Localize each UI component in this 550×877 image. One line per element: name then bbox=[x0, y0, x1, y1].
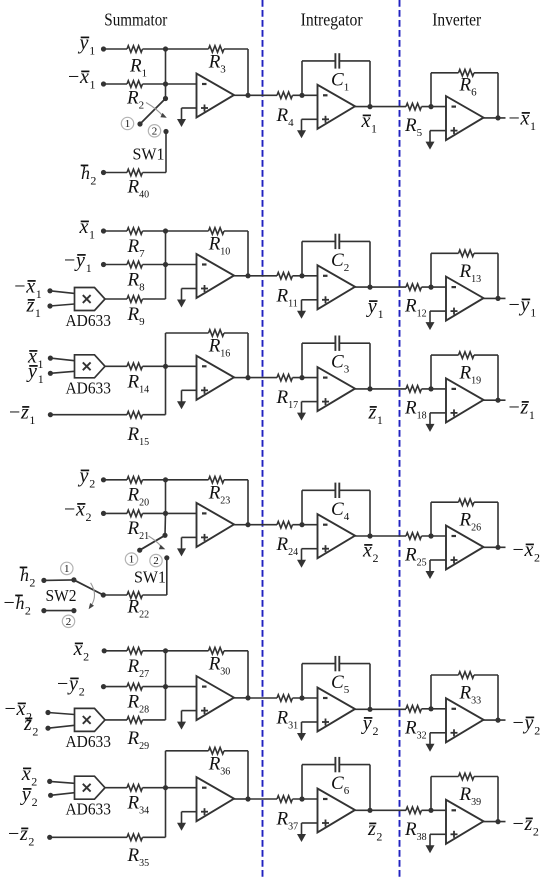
svg-text:1: 1 bbox=[36, 287, 42, 301]
switch SW2 pole bbox=[101, 592, 106, 597]
node label y2bar bbox=[78, 465, 96, 491]
wire bbox=[143, 787, 166, 789]
switch SW1b pole bbox=[162, 533, 167, 538]
wire bbox=[248, 697, 277, 699]
label R11 bbox=[276, 285, 298, 309]
node inverter 3 summing junction bbox=[428, 533, 433, 538]
wire bbox=[44, 579, 74, 582]
op-amp U2 bbox=[318, 85, 356, 129]
svg-text:−: − bbox=[8, 823, 19, 845]
op-amp U14 bbox=[318, 688, 356, 732]
node label x2 bbox=[362, 540, 379, 566]
svg-text:1: 1 bbox=[89, 228, 95, 242]
svg-text:2: 2 bbox=[83, 650, 89, 664]
svg-text:SW1: SW1 bbox=[133, 145, 165, 164]
label R17 bbox=[276, 387, 299, 411]
label R2 bbox=[126, 88, 144, 112]
wire bbox=[143, 365, 166, 367]
label R10 bbox=[208, 234, 231, 258]
resistor R9 bbox=[127, 296, 142, 303]
op-amp U11 bbox=[318, 514, 356, 558]
svg-text:z: z bbox=[26, 295, 35, 317]
node input -x1bar bbox=[101, 81, 106, 86]
wire bbox=[369, 61, 371, 107]
node label x2bar bbox=[73, 638, 90, 664]
wire bbox=[48, 713, 75, 715]
wire bbox=[484, 297, 506, 299]
svg-text:y: y bbox=[523, 712, 534, 734]
svg-text:y: y bbox=[78, 32, 89, 54]
resistor R16 bbox=[209, 330, 224, 337]
resistor R19 bbox=[459, 352, 474, 359]
svg-text:1: 1 bbox=[530, 119, 536, 133]
op-amp U18 bbox=[446, 800, 484, 844]
node input z2bar (mult) bbox=[45, 726, 50, 731]
wire bbox=[182, 288, 197, 290]
svg-text:−: − bbox=[509, 397, 520, 419]
node input -z2bar bbox=[47, 835, 52, 840]
svg-text:1: 1 bbox=[86, 261, 92, 275]
svg-text:SW1: SW1 bbox=[134, 568, 166, 587]
label SW1b bbox=[134, 568, 166, 587]
wire bbox=[247, 651, 249, 698]
svg-text:2: 2 bbox=[32, 725, 38, 739]
ground bbox=[177, 537, 186, 556]
svg-text:z: z bbox=[367, 818, 376, 840]
node summator 2 output bbox=[245, 375, 250, 380]
resistor R11 bbox=[277, 273, 292, 280]
svg-text:1: 1 bbox=[378, 307, 384, 321]
svg-text:Intregator: Intregator bbox=[301, 10, 363, 30]
node input -y2bar bbox=[101, 684, 106, 689]
node label y2bar (mult M4) bbox=[20, 784, 38, 810]
svg-text:x: x bbox=[73, 638, 83, 660]
svg-text:1: 1 bbox=[89, 44, 95, 58]
svg-text:−: − bbox=[9, 402, 20, 424]
ground bbox=[177, 812, 186, 831]
label R26 bbox=[459, 510, 482, 534]
wire bbox=[143, 172, 167, 174]
resistor R28 bbox=[127, 683, 142, 690]
svg-text:2: 2 bbox=[66, 616, 72, 628]
node label x1bar bbox=[79, 216, 96, 242]
wire bbox=[182, 107, 197, 109]
wire bbox=[165, 132, 167, 173]
wire bbox=[430, 412, 446, 414]
wire bbox=[293, 275, 318, 277]
svg-text:−: − bbox=[513, 539, 524, 561]
switch SW1 position 1 bbox=[121, 117, 133, 130]
node input -x1bar (mult) bbox=[47, 288, 52, 293]
svg-text:x: x bbox=[21, 763, 31, 785]
svg-text:2: 2 bbox=[32, 795, 38, 809]
label R15 bbox=[127, 424, 150, 448]
node input h2bar (SW2) bbox=[41, 578, 46, 583]
wire bbox=[293, 798, 318, 800]
wire bbox=[301, 241, 303, 275]
svg-text:z: z bbox=[520, 397, 529, 419]
wire bbox=[474, 674, 498, 676]
svg-text:−: − bbox=[513, 712, 524, 734]
wire bbox=[165, 480, 167, 514]
label R24 bbox=[276, 534, 299, 558]
wire bbox=[355, 286, 406, 288]
wire bbox=[166, 558, 168, 595]
wire bbox=[422, 388, 447, 390]
wire bbox=[165, 231, 167, 265]
switch SW1b position 2 bbox=[150, 554, 162, 567]
switch SW2 lever bbox=[74, 580, 103, 595]
wire bbox=[104, 479, 128, 481]
svg-text:x: x bbox=[524, 539, 534, 561]
node label x1 bbox=[361, 110, 378, 136]
svg-text:2: 2 bbox=[376, 830, 382, 844]
svg-text:−: − bbox=[68, 66, 79, 88]
op-amp U5 bbox=[318, 265, 356, 309]
node integrator 0 summing junction bbox=[299, 93, 304, 98]
node label y1bar bbox=[78, 32, 96, 58]
switch SW1b contact 2 bbox=[164, 555, 169, 560]
switch SW1b position 1 bbox=[125, 553, 137, 566]
label R8 bbox=[127, 270, 146, 294]
svg-text:AD633: AD633 bbox=[66, 800, 112, 819]
ground bbox=[297, 722, 306, 741]
node integrator 0 output bbox=[367, 104, 372, 109]
wire bbox=[355, 809, 406, 811]
label R33 bbox=[459, 683, 482, 707]
label R39 bbox=[459, 784, 482, 808]
label SW2 bbox=[46, 586, 77, 605]
resistor R13 bbox=[459, 250, 474, 257]
svg-text:2: 2 bbox=[534, 724, 540, 738]
label R36 bbox=[208, 753, 231, 777]
svg-text:1: 1 bbox=[38, 357, 44, 371]
wire bbox=[430, 355, 432, 389]
label R12 bbox=[404, 296, 427, 320]
wire bbox=[301, 343, 303, 377]
node label -x1bar (mult) bbox=[14, 276, 42, 302]
node input -y1bar bbox=[101, 262, 106, 267]
node label z2bar (mult) bbox=[23, 713, 38, 739]
op-amp U3 bbox=[446, 96, 484, 140]
switch SW1 lever end bbox=[137, 121, 142, 126]
wire bbox=[104, 512, 128, 514]
ground bbox=[426, 733, 435, 752]
label R23 bbox=[208, 482, 231, 506]
node summator 1 output bbox=[245, 273, 250, 278]
wire bbox=[431, 776, 459, 778]
node label y1 bbox=[366, 296, 384, 322]
switch SW2 position 2 bbox=[62, 615, 74, 628]
wire bbox=[293, 94, 318, 96]
wire bbox=[50, 781, 75, 783]
node row5 summing junction bbox=[163, 684, 168, 689]
node input y2bar bbox=[101, 477, 106, 482]
node inverter 0 summing junction bbox=[428, 104, 433, 109]
wire bbox=[143, 650, 209, 652]
wire bbox=[484, 821, 506, 823]
resistor R17 bbox=[277, 374, 292, 381]
wire bbox=[51, 793, 75, 796]
svg-text:2: 2 bbox=[373, 551, 379, 565]
wire bbox=[497, 253, 499, 298]
node integrator 1 output bbox=[367, 285, 372, 290]
resistor R24 bbox=[277, 521, 292, 528]
wire bbox=[224, 479, 248, 481]
resistor R32 bbox=[406, 706, 421, 713]
wire bbox=[143, 479, 209, 481]
wire bbox=[248, 94, 277, 96]
svg-text:y: y bbox=[74, 250, 85, 272]
node label -x1bar bbox=[68, 66, 96, 92]
resistor R21 bbox=[127, 510, 142, 517]
label R38 bbox=[404, 819, 427, 843]
multiplier AD633 M3 bbox=[66, 708, 112, 751]
wire bbox=[430, 130, 446, 132]
wire bbox=[369, 664, 371, 710]
label R40 bbox=[127, 177, 150, 201]
node label -z2bar bbox=[8, 823, 34, 849]
resistor R10 bbox=[209, 228, 224, 235]
capacitor C3 bbox=[302, 336, 370, 351]
node row5 top junction bbox=[163, 648, 168, 653]
separator dashed line 2 bbox=[399, 0, 401, 877]
label R7 bbox=[127, 236, 146, 260]
wire bbox=[50, 358, 74, 361]
label C2 bbox=[331, 250, 349, 274]
wire bbox=[430, 310, 446, 312]
capacitor C6 bbox=[302, 757, 370, 772]
wire bbox=[166, 686, 197, 688]
wire bbox=[301, 490, 303, 524]
node inverter 1 output bbox=[495, 296, 500, 301]
ground bbox=[177, 390, 186, 409]
svg-text:−: − bbox=[64, 250, 75, 272]
svg-text:1: 1 bbox=[529, 408, 535, 422]
resistor R35 bbox=[127, 834, 142, 841]
node summator 5 output bbox=[245, 796, 250, 801]
label R22 bbox=[127, 597, 150, 621]
node input y2bar (mult M4) bbox=[48, 793, 53, 798]
wire bbox=[484, 719, 506, 721]
label R21 bbox=[127, 518, 150, 542]
wire bbox=[224, 48, 248, 50]
node label -x2 bbox=[513, 539, 541, 565]
wire bbox=[50, 291, 75, 294]
node label -y2bar bbox=[57, 673, 85, 699]
title Summator bbox=[104, 10, 167, 30]
wire bbox=[165, 651, 167, 687]
wire bbox=[165, 751, 167, 788]
resistor R20 bbox=[127, 477, 142, 484]
resistor R30 bbox=[209, 648, 224, 655]
resistor R23 bbox=[209, 477, 224, 484]
node inverter 4 summing junction bbox=[428, 706, 433, 711]
node inverter 2 output bbox=[495, 398, 500, 403]
node input x2bar bbox=[102, 648, 107, 653]
label R28 bbox=[127, 692, 150, 716]
svg-text:−: − bbox=[513, 813, 524, 835]
wire bbox=[474, 354, 498, 356]
switch SW2 position 1 bbox=[61, 562, 73, 575]
node label z1bar (mult) bbox=[26, 295, 41, 321]
node label x1bar (mult M2) bbox=[27, 346, 44, 372]
wire bbox=[105, 298, 127, 300]
wire bbox=[301, 61, 303, 95]
node integrator 2 summing junction bbox=[299, 375, 304, 380]
wire bbox=[50, 414, 127, 416]
svg-text:AD633: AD633 bbox=[66, 311, 112, 330]
svg-text:2: 2 bbox=[79, 685, 85, 699]
wire bbox=[104, 264, 128, 266]
node row3 summing junction bbox=[163, 364, 168, 369]
separator dashed line 1 bbox=[262, 0, 264, 877]
wire bbox=[430, 73, 432, 107]
resistor R34 bbox=[127, 784, 142, 791]
wire bbox=[104, 48, 128, 50]
ground bbox=[297, 402, 306, 421]
node label -h2bar (SW2) bbox=[4, 592, 31, 618]
wire bbox=[431, 252, 459, 254]
node integrator 3 summing junction bbox=[299, 522, 304, 527]
svg-text:z: z bbox=[23, 713, 32, 735]
svg-text:2: 2 bbox=[29, 576, 35, 590]
node input -x2bar bbox=[101, 511, 106, 516]
node label -y2 bbox=[513, 712, 541, 738]
title Intregator bbox=[301, 10, 363, 30]
svg-text:z: z bbox=[368, 402, 377, 424]
node inverter 0 output bbox=[495, 115, 500, 120]
resistor R39 bbox=[459, 773, 474, 780]
wire bbox=[48, 725, 75, 728]
svg-text:2: 2 bbox=[89, 477, 95, 491]
svg-text:y: y bbox=[67, 673, 78, 695]
svg-text:x: x bbox=[79, 66, 89, 88]
svg-text:y: y bbox=[78, 465, 89, 487]
multiplier AD633 M2 bbox=[66, 355, 112, 398]
node row2 summing junction bbox=[163, 262, 168, 267]
node label -x2bar bbox=[64, 499, 92, 525]
svg-text:1: 1 bbox=[90, 78, 96, 92]
svg-text:AD633: AD633 bbox=[66, 732, 112, 751]
resistor R25 bbox=[406, 533, 421, 540]
label C5 bbox=[331, 672, 350, 696]
wire bbox=[166, 83, 197, 85]
svg-text:2: 2 bbox=[90, 174, 96, 188]
switch SW1 pole bbox=[163, 96, 168, 101]
wire bbox=[166, 365, 197, 367]
label R13 bbox=[459, 261, 482, 285]
node summator 4 output bbox=[245, 695, 250, 700]
op-amp U4 bbox=[197, 254, 235, 298]
op-amp U13 bbox=[197, 676, 235, 720]
wire bbox=[104, 172, 128, 174]
label R20 bbox=[127, 485, 150, 509]
wire bbox=[165, 49, 167, 99]
wire bbox=[369, 765, 371, 811]
svg-text:2: 2 bbox=[86, 510, 92, 524]
wire bbox=[50, 371, 74, 373]
wire bbox=[430, 777, 432, 811]
svg-text:x: x bbox=[362, 540, 372, 562]
svg-text:x: x bbox=[75, 499, 85, 521]
resistor R29 bbox=[127, 717, 142, 724]
wire bbox=[301, 664, 303, 698]
node input -h2bar (SW2) bbox=[41, 608, 46, 613]
switch SW1b lever end bbox=[137, 548, 142, 553]
wire bbox=[166, 750, 209, 752]
wire bbox=[166, 332, 209, 334]
op-amp U7 bbox=[197, 356, 235, 400]
wire bbox=[474, 501, 498, 503]
wire bbox=[484, 546, 506, 548]
op-amp U6 bbox=[446, 277, 484, 321]
wire bbox=[224, 332, 248, 334]
op-amp U1 bbox=[197, 74, 235, 118]
ground bbox=[426, 834, 435, 853]
wire bbox=[247, 480, 249, 525]
svg-text:1: 1 bbox=[377, 413, 383, 427]
wire bbox=[182, 811, 197, 813]
label R30 bbox=[208, 653, 231, 677]
label R19 bbox=[459, 363, 482, 387]
wire bbox=[234, 524, 248, 526]
wire bbox=[248, 377, 277, 379]
svg-text:SW2: SW2 bbox=[46, 586, 77, 605]
wire bbox=[143, 512, 166, 514]
node input x1bar (mult M2) bbox=[48, 356, 53, 361]
node summator 3 output bbox=[245, 522, 250, 527]
node integrator 2 output bbox=[367, 386, 372, 391]
label R27 bbox=[127, 656, 150, 680]
wire bbox=[369, 241, 371, 287]
op-amp U8 bbox=[318, 367, 356, 411]
wire bbox=[301, 765, 303, 799]
svg-text:1: 1 bbox=[125, 118, 131, 130]
node input -z1bar bbox=[48, 412, 53, 417]
wire bbox=[166, 512, 197, 514]
wire bbox=[143, 230, 209, 232]
wire bbox=[293, 697, 318, 699]
svg-text:−: − bbox=[509, 294, 520, 316]
resistor R18 bbox=[406, 386, 421, 393]
op-amp U12 bbox=[446, 526, 484, 570]
wire bbox=[165, 788, 167, 838]
ground bbox=[177, 711, 186, 730]
svg-text:2: 2 bbox=[533, 825, 539, 839]
wire bbox=[103, 594, 127, 596]
svg-text:Inverter: Inverter bbox=[432, 10, 481, 30]
ground bbox=[297, 823, 306, 842]
svg-text:2: 2 bbox=[534, 551, 540, 565]
label R16 bbox=[208, 336, 231, 360]
node label x2bar (mult M4) bbox=[21, 763, 38, 789]
node input x1bar bbox=[101, 228, 106, 233]
wire bbox=[302, 299, 318, 301]
wire bbox=[182, 389, 197, 391]
wire bbox=[165, 366, 167, 414]
resistor R5 bbox=[406, 103, 421, 110]
node row2 top junction bbox=[163, 228, 168, 233]
wire bbox=[422, 535, 447, 537]
op-amp U17 bbox=[318, 789, 356, 833]
wire bbox=[165, 687, 167, 720]
wire bbox=[182, 710, 197, 712]
label R29 bbox=[127, 728, 150, 752]
resistor R4 bbox=[277, 92, 292, 99]
wire bbox=[302, 822, 318, 824]
node label -z2 bbox=[513, 813, 539, 839]
